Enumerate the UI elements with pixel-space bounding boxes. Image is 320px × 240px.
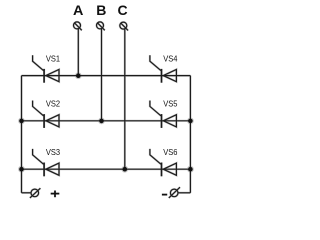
thyristor VS6: [150, 149, 177, 176]
label VS3: [46, 147, 60, 157]
svg-text:B: B: [96, 2, 106, 18]
junction right bus row2: [188, 119, 193, 124]
label VS4: [163, 54, 177, 64]
node C label: [117, 2, 127, 18]
junction left bus row2: [19, 119, 24, 124]
wire left bus vertical: [21, 76, 23, 193]
terminal A: [74, 22, 82, 30]
svg-text:VS1: VS1: [46, 54, 60, 64]
label -: [162, 194, 167, 196]
terminal B: [97, 22, 105, 30]
thyristor VS3: [33, 149, 59, 176]
thyristor VS4: [150, 55, 177, 82]
decorative soft-edge underlay (duplicate of artwork, light gray): [19, 22, 193, 198]
terminal - output: [169, 187, 180, 198]
wire row 2 horizontal: [22, 120, 191, 122]
label +: [51, 191, 60, 198]
thyristor VS5: [150, 101, 177, 128]
svg-text:C: C: [117, 2, 127, 18]
svg-text:VS6: VS6: [163, 147, 177, 157]
wire row 1 horizontal: [22, 75, 191, 77]
svg-text:A: A: [73, 2, 83, 18]
wire bottom left to + terminal: [22, 192, 32, 194]
junction A-row1: [76, 73, 81, 78]
wire phase A vertical: [77, 29, 79, 76]
main artwork: [19, 2, 193, 198]
terminal C: [120, 22, 128, 30]
wire phase C vertical: [124, 29, 126, 169]
thyristor VS2: [33, 101, 59, 128]
svg-text:VS3: VS3: [46, 147, 60, 157]
wire right bus vertical: [189, 76, 191, 193]
junction B-row2: [99, 119, 104, 124]
wire row 3 horizontal: [22, 168, 191, 170]
wire phase B vertical: [101, 29, 103, 121]
svg-text:VS4: VS4: [163, 54, 177, 64]
label VS1: [46, 54, 60, 64]
terminal + output: [30, 188, 41, 198]
node B label: [96, 2, 106, 18]
junction C-row3: [123, 167, 128, 172]
label VS6: [163, 147, 177, 157]
junction right bus row3: [188, 167, 193, 172]
svg-text:VS2: VS2: [46, 99, 60, 109]
label VS2: [46, 99, 60, 109]
svg-text:VS5: VS5: [163, 99, 177, 109]
node A label: [73, 2, 83, 18]
label VS5: [163, 99, 177, 109]
thyristor VS1: [33, 55, 59, 82]
junction left bus row3: [19, 167, 24, 172]
wire bottom right from - terminal: [178, 192, 190, 194]
